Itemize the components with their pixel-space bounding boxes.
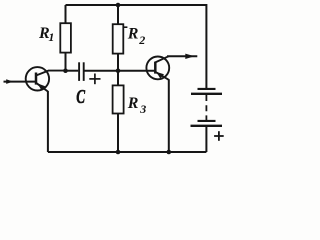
svg-text:R: R xyxy=(127,95,139,112)
input arrowhead xyxy=(6,79,13,84)
svg-text:R: R xyxy=(127,26,139,43)
battery GB cell 1 xyxy=(191,89,222,94)
wire Q2 emitter down xyxy=(168,79,170,152)
svg-text:1: 1 xyxy=(48,30,54,44)
wire node A to capacitor xyxy=(66,70,79,72)
svg-text:3: 3 xyxy=(139,102,146,116)
tick at R2 top right xyxy=(124,26,128,28)
node bottom rail / Q2 emitter xyxy=(167,150,172,155)
node top rail / R2 xyxy=(116,3,121,8)
wire R2 bottom lead xyxy=(117,54,119,71)
battery GB cell 2 xyxy=(191,121,223,126)
node B dot xyxy=(116,68,121,73)
resistor R2 xyxy=(113,24,124,53)
polarity + of capacitor xyxy=(89,74,100,85)
wire right rail (battery top lead) xyxy=(205,4,207,88)
wire R1 top lead xyxy=(65,5,67,23)
wire R2 top lead xyxy=(117,5,119,24)
transistor Q2 xyxy=(146,56,169,80)
node bottom rail / R3 xyxy=(116,150,121,155)
wire battery bottom lead xyxy=(205,127,207,152)
polarity + of battery xyxy=(214,131,224,141)
wire capacitor to node B xyxy=(85,70,119,72)
node A dot xyxy=(63,68,68,73)
wire R3 bottom lead xyxy=(117,114,119,153)
capacitor C plates xyxy=(78,62,80,81)
battery dashed link xyxy=(205,95,207,120)
wire R1 bottom lead xyxy=(65,53,67,71)
output arrowhead xyxy=(185,54,194,59)
resistor R3 xyxy=(113,85,124,113)
transistor Q1 xyxy=(26,67,66,91)
wire Q1 emitter down xyxy=(47,91,49,152)
wire bottom rail xyxy=(48,151,207,153)
wire R3 top lead xyxy=(117,71,119,86)
input terminal wire xyxy=(4,81,36,83)
output terminal wire xyxy=(167,55,197,57)
wire top rail xyxy=(66,4,207,6)
svg-text:C: C xyxy=(76,86,85,108)
wire node B to Q2 base xyxy=(118,70,154,72)
svg-text:2: 2 xyxy=(138,33,145,47)
resistor R1 xyxy=(60,23,71,52)
